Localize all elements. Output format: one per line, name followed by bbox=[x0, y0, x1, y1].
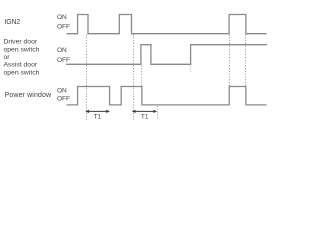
svg-text:Power window: Power window bbox=[5, 92, 52, 99]
svg-text:OFF: OFF bbox=[57, 96, 70, 103]
svg-text:IGN2: IGN2 bbox=[5, 19, 21, 26]
svg-text:ON: ON bbox=[57, 87, 67, 94]
wire IGN2 waveform bbox=[67, 15, 267, 34]
node T1 arrow 2 bbox=[132, 110, 157, 113]
svg-text:open switch: open switch bbox=[4, 46, 40, 53]
svg-text:Driver door: Driver door bbox=[4, 39, 38, 46]
node T1 arrow 1 bbox=[85, 110, 110, 113]
svg-text:ON: ON bbox=[57, 14, 67, 21]
wire power-window waveform bbox=[67, 87, 267, 105]
wire dotted timing line at T1 end bbox=[157, 106, 159, 119]
wire dotted stub below second door-open rise bbox=[190, 66, 192, 73]
svg-text:OFF: OFF bbox=[57, 24, 70, 31]
wire dotted timing line at IGN2 pulse3 fall bbox=[245, 35, 247, 87]
wire dotted timing line at door-open rise bbox=[141, 66, 143, 87]
svg-text:open switch: open switch bbox=[4, 69, 40, 76]
svg-text:or: or bbox=[4, 54, 11, 61]
node door-switch label bbox=[4, 39, 40, 77]
svg-text:OFF: OFF bbox=[57, 57, 70, 64]
svg-text:ON: ON bbox=[57, 47, 67, 54]
wire dotted timing line at IGN2 pulse2 fall bbox=[133, 35, 135, 121]
svg-text:T1: T1 bbox=[141, 113, 149, 120]
wire dotted timing line at IGN2 pulse3 rise bbox=[229, 35, 231, 87]
svg-text:T1: T1 bbox=[94, 113, 102, 120]
wire dotted timing line at IGN2 pulse1 fall bbox=[86, 35, 88, 121]
wire door-switch waveform bbox=[66, 45, 267, 65]
svg-text:Assist door: Assist door bbox=[4, 62, 38, 69]
